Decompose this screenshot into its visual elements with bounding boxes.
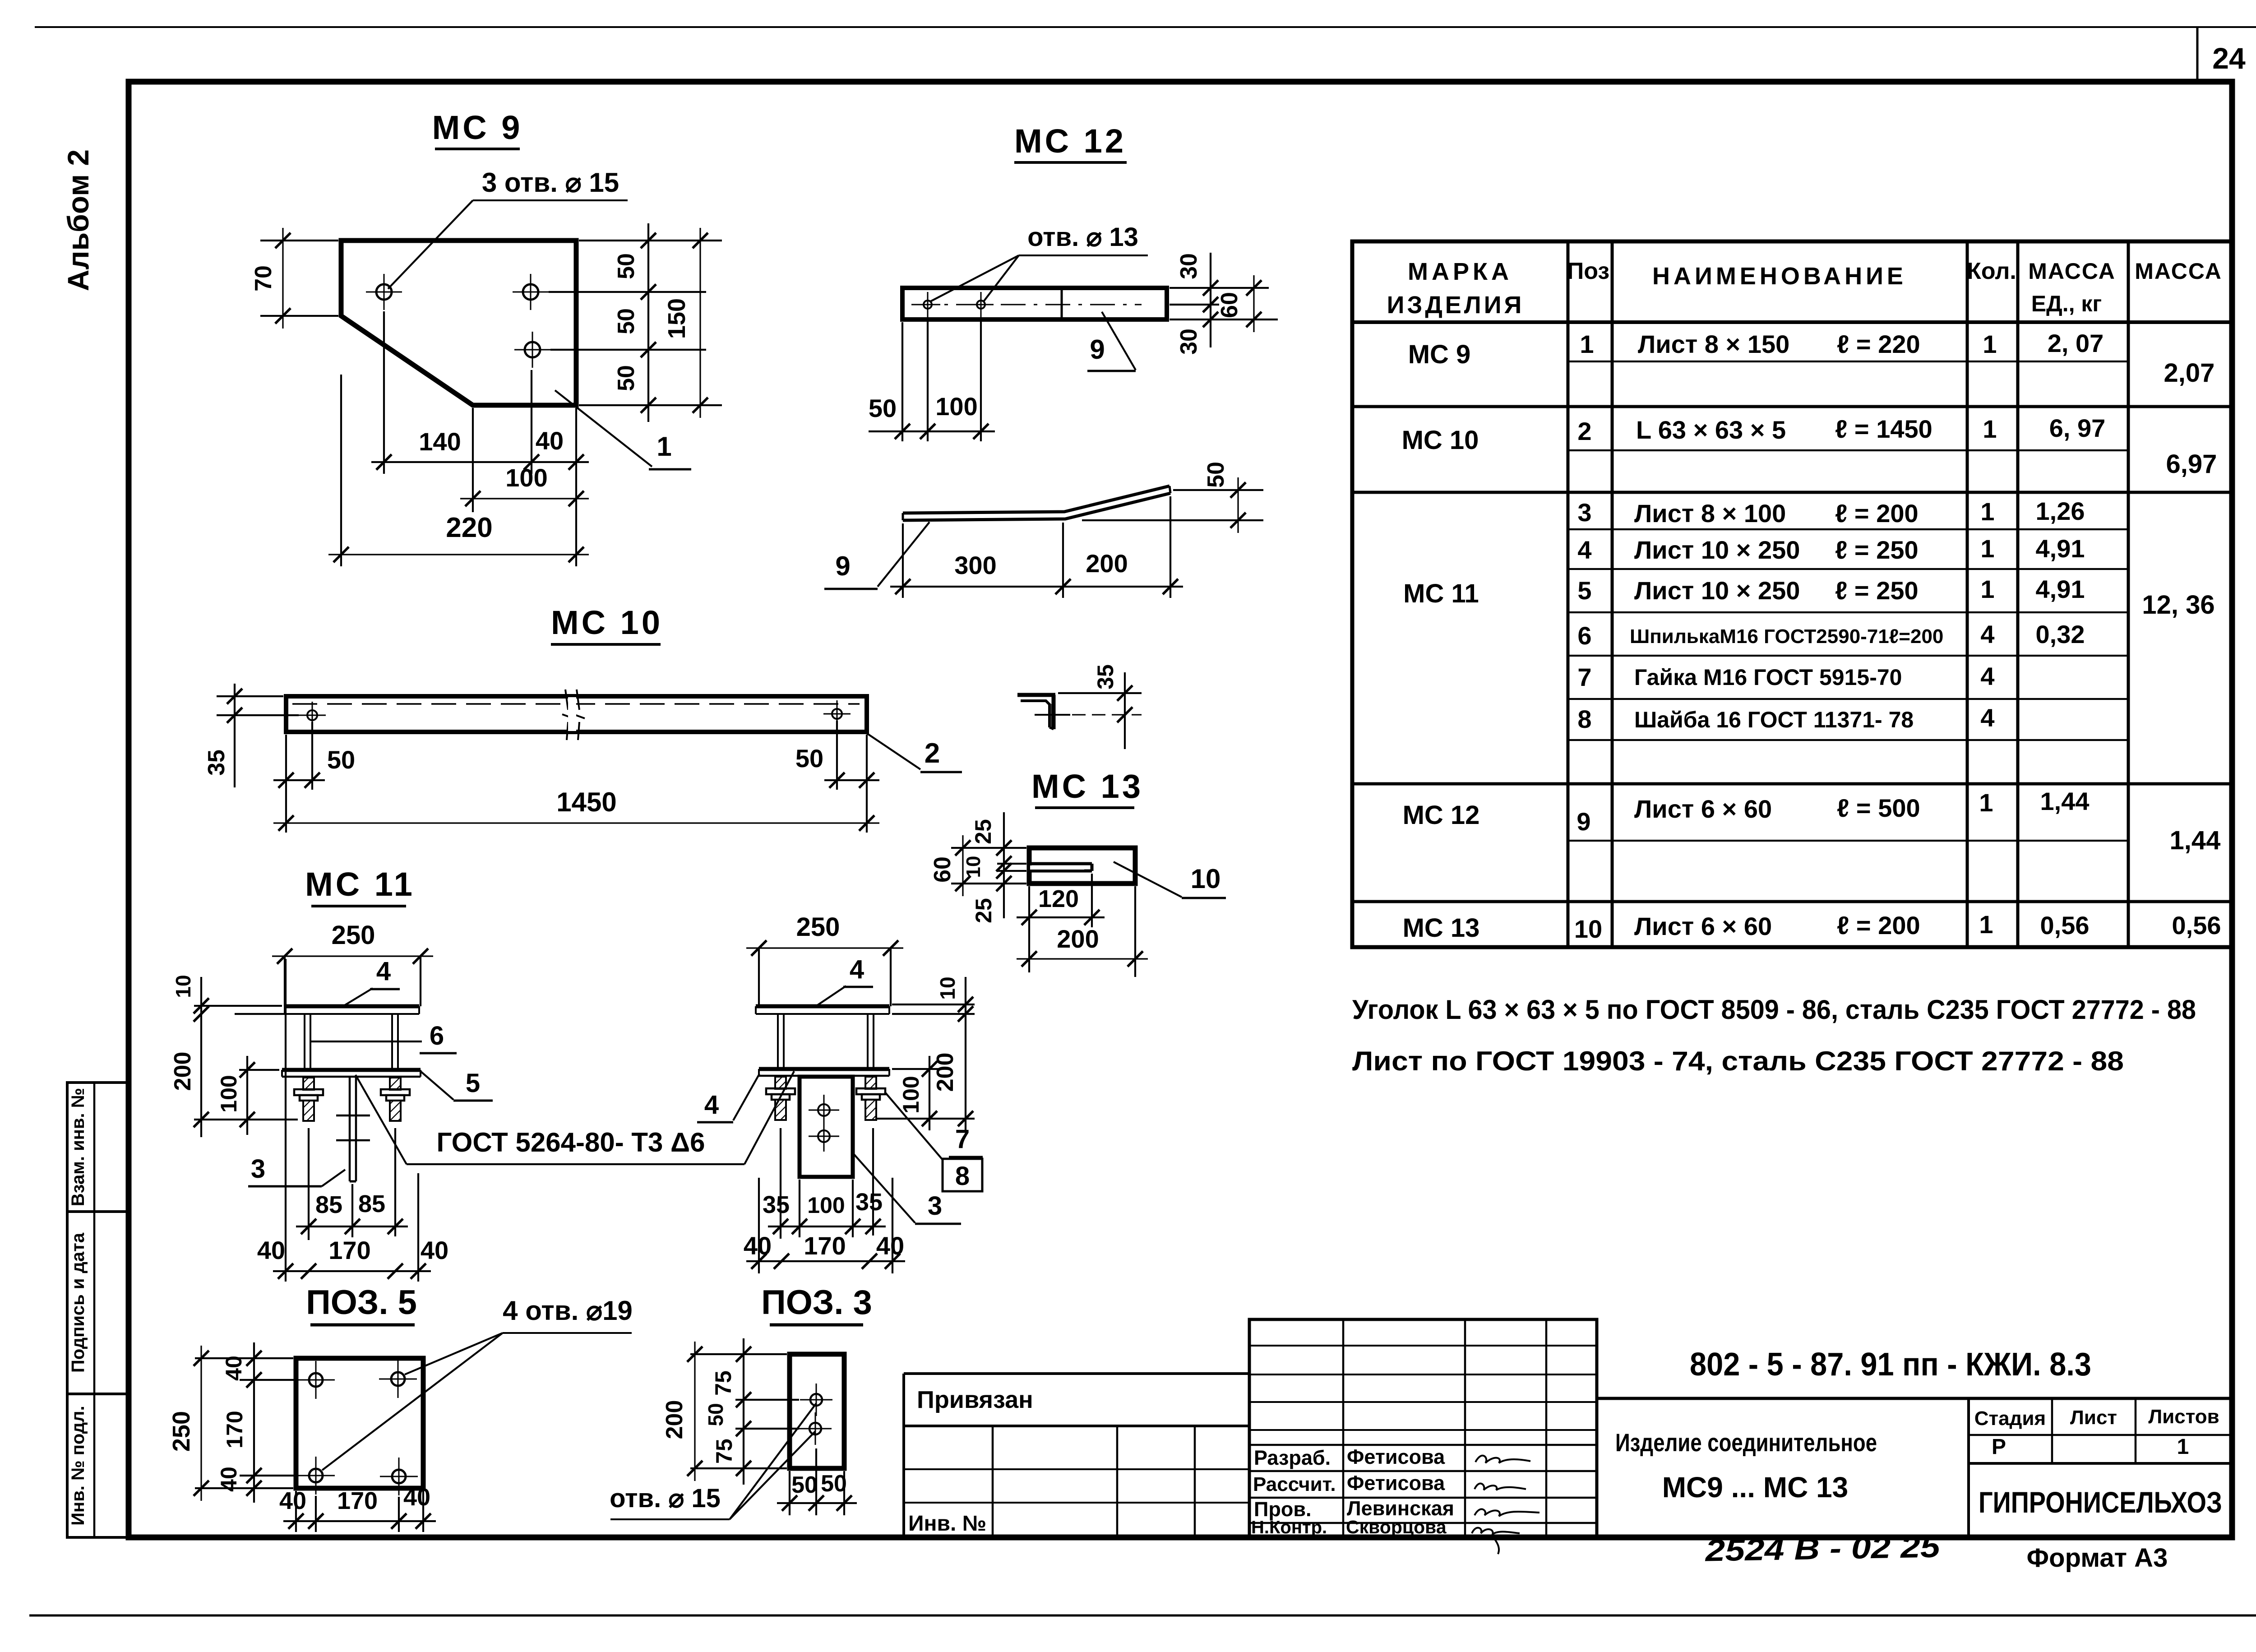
MC11R fin hole lower bbox=[818, 1130, 830, 1142]
svg-text:Изделие соединительное: Изделие соединительное bbox=[1615, 1428, 1877, 1457]
svg-text:7: 7 bbox=[1577, 663, 1591, 691]
svg-text:L 63 × 63 × 5: L 63 × 63 × 5 bbox=[1636, 416, 1786, 444]
svg-text:60: 60 bbox=[929, 856, 956, 883]
MC11R bottom plate item 5 bbox=[759, 1067, 889, 1071]
svg-text:Н.Контр.: Н.Контр. bbox=[1251, 1518, 1327, 1537]
MC11R leader label 4 top bbox=[816, 986, 846, 1006]
MC13 dim 25 10 25 bbox=[1003, 812, 1005, 918]
svg-text:Лист: Лист bbox=[2070, 1407, 2117, 1429]
svg-text:1: 1 bbox=[1979, 910, 1993, 939]
titleblock privyazan box bbox=[902, 1374, 905, 1537]
signature squiggle 2 bbox=[1475, 1484, 1526, 1490]
svg-text:МС 10: МС 10 bbox=[1402, 426, 1479, 455]
MC11L top plate item 4 bbox=[285, 1004, 419, 1009]
MC11R leader label 4 left bbox=[733, 1074, 759, 1120]
MC11L dim 10 200 left bbox=[194, 1005, 282, 1007]
svg-text:6: 6 bbox=[430, 1021, 444, 1050]
svg-text:ГОСТ 5264-80- Т3 Δ6: ГОСТ 5264-80- Т3 Δ6 bbox=[436, 1127, 705, 1157]
MC10 dim 1450 bbox=[273, 822, 879, 824]
svg-text:ℓ = 200: ℓ = 200 bbox=[1837, 911, 1920, 939]
svg-text:ℓ = 1450: ℓ = 1450 bbox=[1835, 415, 1932, 443]
svg-text:МС 12: МС 12 bbox=[1014, 122, 1126, 160]
svg-text:Лист 6 × 60: Лист 6 × 60 bbox=[1634, 912, 1772, 940]
svg-text:ГИПРОНИСЕЛЬХОЗ: ГИПРОНИСЕЛЬХОЗ bbox=[1979, 1485, 2222, 1519]
POS5 hole TL bbox=[309, 1373, 323, 1387]
MC12 bottom extension lines bbox=[901, 322, 903, 441]
MC11R dim 100 right bbox=[929, 1056, 930, 1130]
svg-text:9: 9 bbox=[1090, 334, 1105, 365]
svg-text:4: 4 bbox=[850, 955, 864, 984]
MC11R dim 40 170 40 bbox=[758, 1178, 760, 1273]
svg-text:1,26: 1,26 bbox=[2036, 497, 2085, 525]
svg-text:25: 25 bbox=[971, 898, 996, 923]
svg-text:70: 70 bbox=[250, 265, 277, 292]
svg-text:Разраб.: Разраб. bbox=[1254, 1446, 1331, 1469]
svg-text:4 отв. ⌀19: 4 отв. ⌀19 bbox=[503, 1296, 633, 1326]
svg-text:120: 120 bbox=[1038, 885, 1079, 912]
svg-text:1: 1 bbox=[656, 431, 671, 462]
left margin stamp boxes bbox=[67, 1083, 129, 1537]
svg-text:ℓ = 220: ℓ = 220 bbox=[1837, 330, 1920, 358]
stadia list listov bbox=[1969, 1434, 2232, 1436]
svg-text:2,07: 2,07 bbox=[2164, 358, 2215, 388]
svg-text:4,91: 4,91 bbox=[2036, 534, 2085, 563]
sheet bottom border line bbox=[29, 1615, 2256, 1617]
POS5 dim 40 170 40 bottom bbox=[283, 1520, 436, 1522]
MC9 dim 100 bbox=[460, 498, 589, 499]
MC9 dim 220 bbox=[328, 554, 589, 555]
svg-text:1,44: 1,44 bbox=[2040, 787, 2090, 815]
signature squiggle 1 bbox=[1475, 1456, 1530, 1463]
svg-text:1: 1 bbox=[1980, 575, 1994, 603]
svg-text:1: 1 bbox=[2177, 1435, 2189, 1459]
svg-text:МС 10: МС 10 bbox=[551, 604, 663, 641]
svg-text:250: 250 bbox=[796, 912, 840, 942]
svg-text:ℓ = 500: ℓ = 500 bbox=[1837, 794, 1920, 822]
svg-text:50: 50 bbox=[613, 253, 639, 279]
svg-text:200: 200 bbox=[1086, 549, 1128, 578]
MC12 side bottom extension lines bbox=[902, 523, 904, 598]
titleblock signature table bbox=[1249, 1319, 1597, 1537]
svg-text:отв. ⌀ 13: отв. ⌀ 13 bbox=[1027, 222, 1138, 252]
MC9 hole C bbox=[525, 342, 540, 357]
svg-text:140: 140 bbox=[419, 427, 461, 456]
svg-text:100: 100 bbox=[216, 1075, 241, 1112]
svg-text:50: 50 bbox=[327, 745, 355, 774]
parts table row lines bbox=[1568, 361, 2128, 362]
svg-text:4: 4 bbox=[376, 957, 391, 986]
svg-text:1,44: 1,44 bbox=[2170, 826, 2221, 855]
MC12 side view bent plate bbox=[903, 486, 1170, 513]
MC13 dim 60 bbox=[962, 835, 963, 896]
svg-text:24: 24 bbox=[2212, 42, 2246, 75]
MC10 section hole centermark bbox=[1035, 714, 1070, 716]
MC9 plate outline item 1 bbox=[341, 241, 576, 405]
svg-text:МС 13: МС 13 bbox=[1403, 913, 1480, 943]
MC10 break symbol bbox=[565, 689, 568, 710]
svg-text:Привязан: Привязан bbox=[917, 1386, 1033, 1413]
svg-text:3: 3 bbox=[1577, 498, 1591, 527]
svg-text:9: 9 bbox=[835, 551, 850, 581]
svg-text:Стадия: Стадия bbox=[1974, 1407, 2046, 1430]
svg-text:25: 25 bbox=[971, 819, 996, 844]
svg-text:85: 85 bbox=[315, 1191, 342, 1218]
svg-text:2: 2 bbox=[925, 738, 940, 769]
svg-text:10: 10 bbox=[1191, 864, 1221, 894]
svg-text:100: 100 bbox=[898, 1076, 924, 1113]
svg-text:Фетисова: Фетисова bbox=[1347, 1445, 1445, 1468]
titleblock name box bbox=[1967, 1398, 1970, 1537]
POS3 bottom extension lines bbox=[789, 1471, 791, 1515]
MC11L left stud lower with nut bbox=[303, 1078, 314, 1090]
svg-text:МС 12: МС 12 bbox=[1403, 801, 1480, 830]
MC11R dim 200 right bbox=[892, 1068, 939, 1070]
svg-text:3: 3 bbox=[251, 1154, 265, 1184]
MC11R fin plate item 3 front view bbox=[800, 1077, 853, 1177]
MC11L dim 85 85 bbox=[308, 1128, 310, 1240]
svg-text:МС9 ... МС 13: МС9 ... МС 13 bbox=[1662, 1471, 1849, 1504]
MC11L leader label 4 bbox=[343, 988, 373, 1006]
svg-text:40: 40 bbox=[421, 1236, 448, 1264]
svg-text:100: 100 bbox=[935, 392, 977, 421]
POS3 plate outline bbox=[790, 1354, 844, 1468]
MC9 hole B bbox=[523, 284, 538, 300]
svg-text:40: 40 bbox=[876, 1231, 904, 1260]
svg-text:10: 10 bbox=[936, 976, 959, 1000]
MC13 leader label 10 bbox=[1114, 862, 1182, 897]
svg-text:40: 40 bbox=[216, 1467, 241, 1492]
signature squiggle 4 bbox=[1472, 1528, 1520, 1554]
svg-text:1450: 1450 bbox=[556, 787, 616, 817]
MC13 slot bbox=[1029, 862, 1092, 865]
svg-text:9: 9 bbox=[1576, 807, 1590, 836]
svg-text:0,56: 0,56 bbox=[2040, 911, 2090, 939]
svg-text:85: 85 bbox=[358, 1190, 385, 1217]
svg-text:Поз: Поз bbox=[1567, 258, 1609, 284]
MC9 bottom extension lines bbox=[383, 311, 385, 474]
MC10 dim 50 right bbox=[836, 721, 838, 790]
MC11R fin hole upper bbox=[818, 1104, 830, 1116]
svg-text:250: 250 bbox=[332, 921, 375, 950]
svg-text:35: 35 bbox=[1093, 664, 1118, 689]
svg-text:Подпись и дата: Подпись и дата bbox=[68, 1232, 88, 1373]
svg-text:Гайка М16 ГОСТ 5915-70: Гайка М16 ГОСТ 5915-70 bbox=[1634, 665, 1902, 690]
MC13 slotted plate item 10 bbox=[1029, 848, 1135, 884]
svg-text:35: 35 bbox=[763, 1191, 790, 1218]
svg-text:3: 3 bbox=[928, 1191, 942, 1221]
POS3 dim 200 bbox=[694, 1342, 695, 1481]
svg-text:30: 30 bbox=[1176, 329, 1202, 355]
svg-text:6,97: 6,97 bbox=[2166, 449, 2217, 479]
MC10 angle cross-section bbox=[1017, 693, 1055, 697]
POS5 plate outline bbox=[296, 1358, 423, 1488]
svg-text:0,32: 0,32 bbox=[2036, 620, 2085, 648]
svg-text:Инв. № подл.: Инв. № подл. bbox=[68, 1406, 88, 1525]
svg-text:Скворцова: Скворцова bbox=[1346, 1517, 1447, 1537]
svg-text:4: 4 bbox=[1980, 620, 1994, 648]
svg-text:МС 11: МС 11 bbox=[1403, 579, 1479, 608]
svg-text:Инв. №: Инв. № bbox=[908, 1512, 986, 1536]
MC12 bar weld seam bbox=[1061, 288, 1063, 319]
MC10 dim 35 bbox=[217, 695, 283, 697]
svg-text:ИЗДЕЛИЯ: ИЗДЕЛИЯ bbox=[1387, 292, 1525, 319]
svg-text:Уголок L 63 × 63 × 5 по ГОСТ: Уголок L 63 × 63 × 5 по ГОСТ 8509 - 86, … bbox=[1352, 995, 2196, 1025]
MC11L dim 100 bbox=[239, 1069, 279, 1071]
MC11R dim 35 100 35 bbox=[780, 1128, 781, 1239]
svg-text:100: 100 bbox=[505, 463, 547, 492]
svg-text:Взам. инв. №: Взам. инв. № bbox=[68, 1088, 88, 1206]
svg-text:50: 50 bbox=[1203, 462, 1229, 488]
svg-text:Листов: Листов bbox=[2148, 1406, 2219, 1428]
svg-text:50: 50 bbox=[795, 744, 823, 773]
POS3 hole upper bbox=[810, 1394, 822, 1406]
POS5 hole TR bbox=[391, 1372, 405, 1386]
POS5 dim 250 bbox=[200, 1346, 202, 1501]
svg-text:50: 50 bbox=[613, 308, 639, 334]
svg-text:40: 40 bbox=[221, 1356, 246, 1381]
svg-text:50: 50 bbox=[704, 1403, 727, 1426]
parts table outer frame bbox=[1352, 241, 2232, 947]
svg-text:Альбом 2: Альбом 2 bbox=[61, 149, 95, 291]
MC13 dim 120 bbox=[1017, 916, 1105, 918]
svg-text:Рассчит.: Рассчит. bbox=[1253, 1473, 1336, 1495]
svg-text:10: 10 bbox=[1574, 915, 1602, 943]
MC11R dim 250 bbox=[758, 948, 760, 1006]
parts table column lines bbox=[1567, 241, 1570, 947]
svg-text:170: 170 bbox=[328, 1236, 370, 1264]
svg-text:30: 30 bbox=[1176, 253, 1202, 279]
svg-text:50: 50 bbox=[821, 1471, 847, 1497]
MC11L leader label 5 bbox=[421, 1071, 453, 1100]
MC11R dim 10 right bbox=[892, 1004, 975, 1005]
svg-text:50: 50 bbox=[869, 394, 897, 422]
svg-text:35: 35 bbox=[855, 1189, 883, 1216]
svg-text:МС 11: МС 11 bbox=[305, 865, 415, 903]
svg-text:170: 170 bbox=[804, 1231, 846, 1260]
svg-text:4: 4 bbox=[1980, 703, 1994, 732]
POS3 top extension lines bbox=[690, 1353, 787, 1355]
MC9 leader label 1 bbox=[555, 390, 652, 467]
svg-text:200: 200 bbox=[661, 1400, 688, 1439]
svg-text:Р: Р bbox=[1992, 1435, 2006, 1459]
svg-text:300: 300 bbox=[954, 551, 996, 579]
svg-text:40: 40 bbox=[403, 1484, 430, 1511]
svg-text:170: 170 bbox=[222, 1411, 247, 1448]
svg-text:Лист 8 × 150: Лист 8 × 150 bbox=[1638, 330, 1789, 358]
svg-text:250: 250 bbox=[168, 1411, 195, 1452]
MC9 hole A bbox=[376, 284, 392, 300]
MC11L leader label 6 bbox=[311, 1041, 422, 1042]
svg-text:МАССА: МАССА bbox=[2135, 259, 2222, 284]
MC9 dim 140 40 bbox=[371, 461, 589, 463]
svg-text:40: 40 bbox=[279, 1487, 306, 1514]
POS5 dim 40 170 40 left bbox=[253, 1342, 255, 1503]
svg-text:35: 35 bbox=[203, 750, 230, 776]
MC10 dim 50 left bbox=[285, 735, 287, 833]
titleblock doc number box bbox=[1595, 1319, 1599, 1537]
POS5 hole BR bbox=[392, 1470, 406, 1483]
MC12 side dim 50 bbox=[1173, 489, 1263, 491]
svg-text:75: 75 bbox=[712, 1439, 737, 1464]
MC12 side leader label 9 bbox=[878, 522, 929, 587]
MC9 dim 50 50 50 bbox=[647, 223, 649, 422]
svg-text:170: 170 bbox=[337, 1487, 378, 1514]
MC11L fin hole marks bbox=[336, 1115, 370, 1117]
svg-text:60: 60 bbox=[1216, 292, 1243, 318]
MC11R leader label 3 bbox=[853, 1153, 915, 1223]
MC12 dim 300 200 bbox=[890, 586, 1183, 588]
MC11L fin plate item 3 edge view bbox=[349, 1078, 351, 1181]
MC12 dim 50 100 bbox=[869, 430, 995, 432]
svg-text:8: 8 bbox=[955, 1161, 970, 1191]
MC9 dim 150 bbox=[699, 228, 701, 418]
svg-text:Лист 10 × 250: Лист 10 × 250 bbox=[1634, 576, 1800, 605]
svg-text:4: 4 bbox=[1577, 536, 1591, 564]
svg-text:50: 50 bbox=[791, 1472, 818, 1498]
svg-text:6, 97: 6, 97 bbox=[2049, 414, 2106, 442]
svg-text:200: 200 bbox=[932, 1053, 958, 1092]
MC11L bottom plate item 5 bbox=[282, 1068, 421, 1072]
MC13 left extension lines bbox=[951, 847, 1026, 849]
svg-text:ПОЗ. 3: ПОЗ. 3 bbox=[761, 1283, 872, 1322]
svg-text:ℓ = 200: ℓ = 200 bbox=[1835, 499, 1919, 528]
svg-text:3 отв. ⌀ 15: 3 отв. ⌀ 15 bbox=[482, 167, 619, 198]
svg-text:4: 4 bbox=[1980, 662, 1994, 690]
svg-text:40: 40 bbox=[744, 1231, 772, 1260]
page number box 24 bbox=[2196, 27, 2199, 82]
svg-text:4,91: 4,91 bbox=[2036, 575, 2085, 603]
svg-text:1: 1 bbox=[1980, 534, 1994, 563]
MC12 right extension lines bbox=[1170, 287, 1269, 289]
MC11R right stud lower with nut bbox=[865, 1077, 876, 1089]
svg-text:12, 36: 12, 36 bbox=[2142, 590, 2214, 620]
MC12 bar plan item 9 bbox=[902, 288, 1167, 319]
svg-text:200: 200 bbox=[170, 1052, 196, 1091]
svg-text:ℓ = 250: ℓ = 250 bbox=[1835, 576, 1919, 605]
svg-text:Лист 10 × 250: Лист 10 × 250 bbox=[1634, 536, 1800, 564]
svg-text:1: 1 bbox=[1580, 330, 1594, 358]
MC10 hole left bbox=[307, 710, 317, 720]
parts table group lines bbox=[1352, 405, 2232, 408]
MC10 section dim 35 bbox=[1058, 692, 1142, 694]
MC12 bar centerline bbox=[911, 304, 1142, 305]
MC12 hole A bbox=[924, 301, 932, 309]
MC13 bottom extension lines bbox=[1028, 886, 1030, 972]
svg-text:200: 200 bbox=[1057, 925, 1099, 953]
svg-text:МАРКА: МАРКА bbox=[1408, 258, 1512, 285]
POS3 hole lower bbox=[809, 1423, 821, 1435]
svg-text:8: 8 bbox=[1577, 705, 1591, 733]
sheet top border line bbox=[35, 26, 2256, 28]
svg-text:1: 1 bbox=[1979, 788, 1993, 817]
MC9 dim 70 bbox=[260, 240, 338, 241]
MC13 dim 200 bbox=[1017, 958, 1148, 959]
MC10 hole right bbox=[832, 709, 842, 719]
svg-text:Лист 6 × 60: Лист 6 × 60 bbox=[1634, 795, 1772, 823]
MC10 angle bar plan item 2 bbox=[286, 696, 867, 732]
svg-text:0,56: 0,56 bbox=[2172, 911, 2221, 939]
MC12 hole B bbox=[977, 301, 985, 309]
svg-text:10: 10 bbox=[962, 856, 985, 878]
svg-text:150: 150 bbox=[663, 298, 690, 339]
MC11L dim 250 bbox=[284, 956, 286, 1006]
svg-text:75: 75 bbox=[711, 1370, 736, 1396]
svg-text:1: 1 bbox=[1980, 497, 1994, 526]
svg-text:НАИМЕНОВАНИЕ: НАИМЕНОВАНИЕ bbox=[1652, 263, 1907, 290]
svg-text:2, 07: 2, 07 bbox=[2048, 329, 2104, 357]
svg-text:МС 9: МС 9 bbox=[1408, 340, 1471, 369]
svg-text:2: 2 bbox=[1577, 417, 1591, 445]
svg-text:40: 40 bbox=[257, 1236, 285, 1264]
svg-text:5: 5 bbox=[466, 1069, 480, 1098]
svg-text:отв. ⌀ 15: отв. ⌀ 15 bbox=[610, 1484, 721, 1513]
signature squiggle 3 bbox=[1475, 1509, 1539, 1516]
svg-text:5: 5 bbox=[1577, 576, 1591, 605]
MC11L right stud lower with nut bbox=[390, 1078, 401, 1090]
svg-text:Фетисова: Фетисова bbox=[1347, 1472, 1445, 1495]
svg-text:40: 40 bbox=[536, 426, 564, 455]
MC11R leader label 7 8 bbox=[885, 1092, 943, 1160]
svg-text:2524 В - 02 25: 2524 В - 02 25 bbox=[1704, 1529, 1941, 1568]
svg-text:ПОЗ. 5: ПОЗ. 5 bbox=[306, 1283, 417, 1322]
MC10 hidden bend dashed line bbox=[292, 703, 860, 705]
svg-text:Лист 8 × 100: Лист 8 × 100 bbox=[1634, 499, 1786, 528]
svg-text:802 - 5 - 87. 91 пп - КЖИ. 8.: 802 - 5 - 87. 91 пп - КЖИ. 8.3 bbox=[1690, 1347, 2091, 1383]
POS3 dim 50 50 bbox=[777, 1502, 857, 1504]
MC11R left stud lower with nut bbox=[775, 1077, 786, 1089]
MC12 plan leader label 9 bbox=[1102, 312, 1136, 370]
svg-text:Шайба 16 ГОСТ 11371- 78: Шайба 16 ГОСТ 11371- 78 bbox=[1634, 707, 1914, 732]
POS5 left extension lines bbox=[195, 1357, 293, 1359]
svg-text:МС 13: МС 13 bbox=[1031, 768, 1143, 805]
svg-text:Формат А3: Формат А3 bbox=[2027, 1543, 2168, 1573]
svg-text:7: 7 bbox=[955, 1124, 970, 1154]
POS5 bottom extension lines bbox=[295, 1491, 297, 1532]
svg-text:МС 9: МС 9 bbox=[432, 109, 523, 146]
svg-text:100: 100 bbox=[807, 1193, 845, 1218]
MC11L leader label 3 bbox=[322, 1170, 345, 1186]
svg-text:ℓ = 250: ℓ = 250 bbox=[1835, 536, 1919, 564]
svg-text:220: 220 bbox=[446, 512, 492, 543]
MC11R top plate item 4 bbox=[756, 1004, 889, 1009]
svg-text:1: 1 bbox=[1983, 330, 1997, 358]
svg-text:Лист по ГОСТ 19903 - 74,: Лист по ГОСТ 19903 - 74, сталь С235 ГОСТ… bbox=[1352, 1046, 2124, 1076]
svg-text:МАССА: МАССА bbox=[2028, 259, 2116, 284]
svg-text:ЕД., кг: ЕД., кг bbox=[2031, 291, 2102, 316]
POS5 hole BL bbox=[309, 1469, 323, 1482]
MC11R stud shafts bbox=[777, 1014, 779, 1068]
parts table header line bbox=[1352, 320, 2232, 324]
MC11L stud shafts item 6 bbox=[304, 1014, 305, 1069]
svg-text:4: 4 bbox=[704, 1090, 719, 1120]
svg-text:Кол.: Кол. bbox=[1967, 258, 2016, 284]
svg-text:50: 50 bbox=[613, 365, 639, 391]
MC11L dim 40 170 40 bbox=[285, 959, 287, 1282]
POS3 dim 75 50 75 bbox=[743, 1338, 744, 1485]
MC9 right extension lines bbox=[579, 240, 722, 241]
svg-text:6: 6 bbox=[1577, 621, 1591, 650]
svg-text:1: 1 bbox=[1983, 415, 1997, 443]
svg-text:ШпилькаМ16 ГОСТ2590-71ℓ=200: ШпилькаМ16 ГОСТ2590-71ℓ=200 bbox=[1630, 625, 1943, 648]
MC10 leader label 2 bbox=[867, 733, 920, 769]
svg-text:10: 10 bbox=[171, 975, 195, 998]
MC12 dim 30 60 30 bbox=[1210, 253, 1211, 347]
